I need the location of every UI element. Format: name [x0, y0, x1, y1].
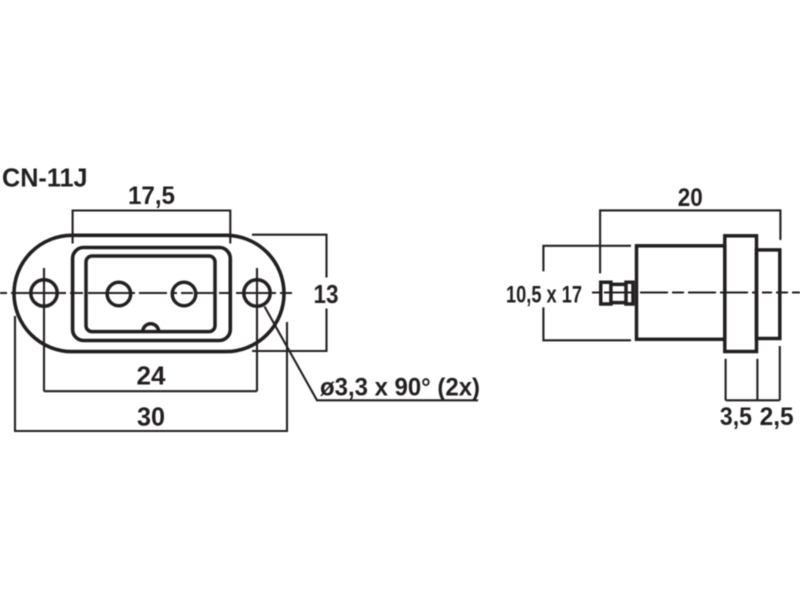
svg-text:ø3,3 x 90° (2x): ø3,3 x 90° (2x): [320, 374, 480, 402]
dimension 17,5 bracket: [73, 211, 231, 244]
mounting hole left: [31, 280, 57, 306]
jack body side view: [637, 246, 725, 339]
svg-text:2,5: 2,5: [760, 403, 794, 431]
dimension 20 bracket: [600, 210, 780, 273]
dimension 10,5 x 17 bracket: [543, 246, 631, 340]
dimension 30 bracket: [15, 316, 287, 431]
mounting hole right: [244, 280, 270, 306]
dimension 24 line: [44, 390, 257, 392]
svg-text:20: 20: [678, 184, 703, 212]
svg-text:10,5 x 17: 10,5 x 17: [506, 282, 582, 309]
mounting hole left vertical centerline: [43, 268, 45, 391]
leader line for hole spec: [265, 307, 479, 401]
centerline right view: [592, 291, 800, 293]
solder terminal tip: [601, 282, 611, 304]
svg-text:3,5: 3,5: [720, 403, 752, 431]
dimension 3,5 extension left: [725, 359, 727, 401]
svg-text:30: 30: [137, 402, 165, 432]
dimension 3,5 extension middle: [756, 359, 758, 401]
rear bushing side view: [757, 250, 780, 339]
mounting hole right vertical centerline: [256, 268, 258, 391]
svg-text:24: 24: [137, 361, 167, 391]
svg-text:13: 13: [314, 279, 339, 309]
solder terminal neck: [611, 284, 626, 302]
mounting plate side view: [725, 236, 757, 352]
pin hole right: [172, 282, 196, 306]
socket inner rectangle: [86, 256, 215, 332]
centerline left view: [0, 292, 292, 294]
dimension 3,5 2,5 line: [726, 399, 780, 401]
notch semicircle: [143, 324, 159, 332]
pin hole left: [107, 282, 130, 306]
svg-text:17,5: 17,5: [128, 182, 175, 210]
svg-text:CN-11J: CN-11J: [2, 162, 88, 192]
dimension 13 bracket: [252, 235, 327, 351]
oval flange outline: [14, 235, 284, 351]
housing rounded rectangle: [73, 248, 231, 341]
solder terminal base: [626, 282, 633, 304]
dimension 2,5 extension right: [779, 346, 781, 400]
